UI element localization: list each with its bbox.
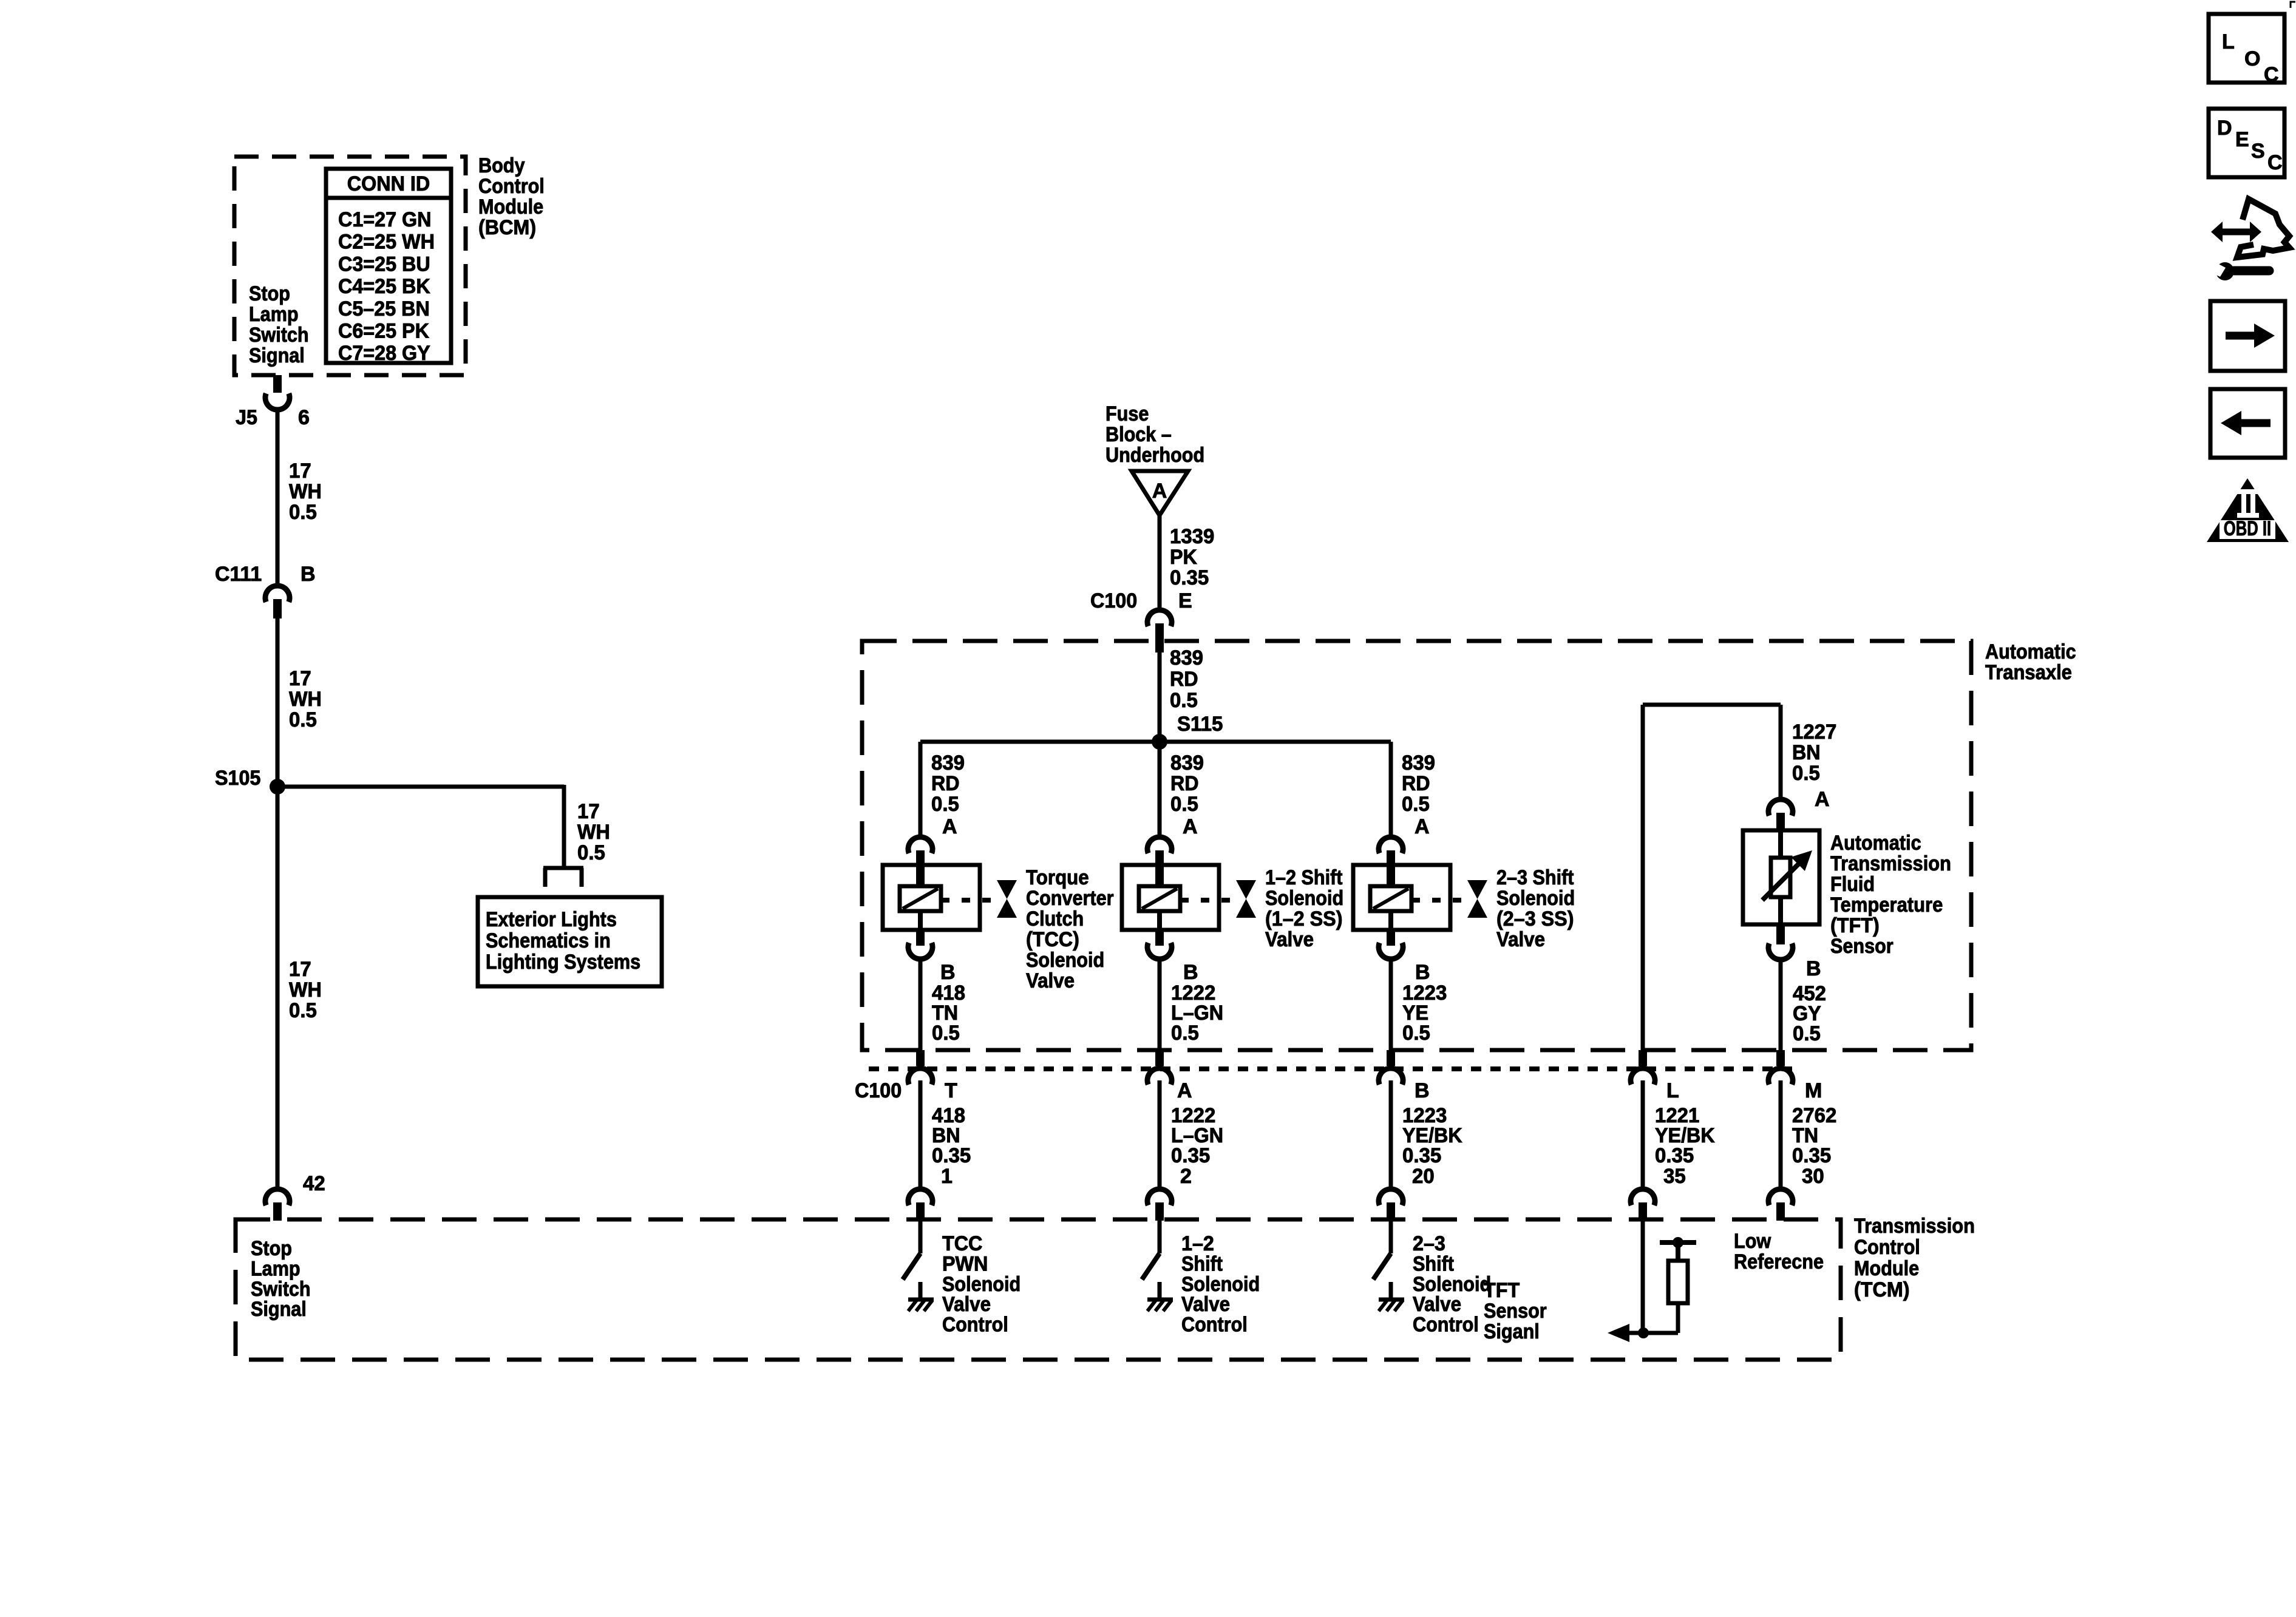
- svg-text:E: E: [2235, 128, 2249, 151]
- svg-text:Clutch: Clutch: [1026, 907, 1084, 931]
- svg-text:WH: WH: [577, 821, 610, 844]
- svg-text:C: C: [2267, 151, 2283, 174]
- svg-text:0.5: 0.5: [1170, 793, 1198, 816]
- svg-text:T: T: [945, 1079, 957, 1102]
- svg-text:17: 17: [289, 667, 311, 690]
- svg-text:1227: 1227: [1792, 720, 1836, 744]
- svg-text:C2=25 WH: C2=25 WH: [338, 231, 435, 254]
- svg-text:Valve: Valve: [1265, 928, 1314, 951]
- svg-text:17: 17: [577, 800, 600, 823]
- svg-text:Lighting Systems: Lighting Systems: [486, 951, 640, 974]
- svg-text:RD: RD: [1170, 668, 1198, 691]
- svg-text:Module: Module: [1854, 1257, 1919, 1280]
- svg-text:Valve: Valve: [942, 1293, 991, 1316]
- svg-text:Referecne: Referecne: [1734, 1250, 1824, 1273]
- svg-text:B: B: [940, 961, 956, 984]
- svg-text:Underhood: Underhood: [1106, 444, 1204, 467]
- svg-text:Fluid: Fluid: [1830, 873, 1875, 896]
- svg-text:C100: C100: [1090, 589, 1137, 612]
- svg-text:A: A: [1152, 480, 1167, 503]
- svg-text:Solenoid: Solenoid: [1181, 1273, 1260, 1296]
- svg-text:Converter: Converter: [1026, 887, 1114, 910]
- svg-text:O: O: [2244, 47, 2260, 70]
- svg-text:0.5: 0.5: [289, 999, 317, 1022]
- svg-text:42: 42: [303, 1172, 325, 1195]
- svg-text:0.5: 0.5: [1402, 793, 1430, 816]
- svg-text:17: 17: [289, 459, 311, 483]
- svg-text:839: 839: [1402, 751, 1435, 775]
- svg-text:Stop: Stop: [251, 1237, 292, 1260]
- svg-text:Transaxle: Transaxle: [1985, 661, 2072, 684]
- svg-text:A: A: [942, 815, 957, 838]
- svg-text:Body: Body: [478, 154, 525, 177]
- svg-text:L: L: [1666, 1079, 1679, 1102]
- svg-text:WH: WH: [289, 688, 322, 711]
- svg-text:0.35: 0.35: [1402, 1144, 1441, 1167]
- svg-text:Block –: Block –: [1106, 423, 1172, 446]
- svg-text:839: 839: [1170, 646, 1203, 670]
- svg-text:2: 2: [1180, 1165, 1192, 1188]
- svg-text:30: 30: [1802, 1165, 1824, 1188]
- svg-text:A: A: [1815, 788, 1830, 811]
- svg-text:0.5: 0.5: [1170, 689, 1198, 712]
- svg-text:Solenoid: Solenoid: [1026, 949, 1104, 972]
- svg-text:A: A: [1415, 815, 1430, 838]
- svg-text:Valve: Valve: [1181, 1293, 1230, 1316]
- svg-text:0.35: 0.35: [1171, 1144, 1210, 1167]
- svg-text:(TCC): (TCC): [1026, 928, 1079, 951]
- svg-text:B: B: [1183, 961, 1198, 984]
- svg-text:J5: J5: [236, 406, 257, 429]
- svg-text:Low: Low: [1734, 1230, 1771, 1253]
- svg-text:Signal: Signal: [251, 1298, 307, 1321]
- svg-text:TFT: TFT: [1484, 1279, 1520, 1302]
- svg-text:Torque: Torque: [1026, 866, 1089, 889]
- svg-text:B: B: [1415, 961, 1430, 984]
- svg-text:RD: RD: [1170, 772, 1199, 795]
- svg-text:PK: PK: [1170, 546, 1197, 569]
- svg-text:Module: Module: [478, 195, 543, 219]
- svg-text:PWN: PWN: [942, 1252, 988, 1275]
- svg-text:S105: S105: [215, 767, 260, 790]
- svg-text:Sensor: Sensor: [1830, 935, 1894, 958]
- svg-text:BN: BN: [1792, 741, 1821, 764]
- svg-text:A: A: [1177, 1079, 1192, 1102]
- svg-text:35: 35: [1663, 1165, 1686, 1188]
- svg-text:(TFT): (TFT): [1830, 914, 1880, 937]
- svg-text:Switch: Switch: [251, 1278, 311, 1301]
- svg-text:Control: Control: [1181, 1314, 1248, 1337]
- svg-text:Solenoid: Solenoid: [1496, 887, 1575, 910]
- svg-text:B: B: [1415, 1079, 1430, 1102]
- svg-text:Solenoid: Solenoid: [1413, 1273, 1491, 1296]
- svg-text:C4=25 BK: C4=25 BK: [338, 275, 430, 298]
- svg-text:Shift: Shift: [1413, 1252, 1454, 1275]
- svg-text:A: A: [1183, 815, 1198, 838]
- svg-text:RD: RD: [1402, 772, 1430, 795]
- svg-text:C7=28 GY: C7=28 GY: [338, 342, 430, 365]
- svg-text:(2–3 SS): (2–3 SS): [1496, 907, 1574, 931]
- svg-text:1–2: 1–2: [1181, 1232, 1214, 1255]
- svg-text:C5–25 BN: C5–25 BN: [338, 297, 430, 320]
- svg-text:C1=27 GN: C1=27 GN: [338, 208, 432, 231]
- svg-text:S115: S115: [1177, 713, 1223, 736]
- svg-text:C111: C111: [215, 563, 262, 586]
- svg-text:Shift: Shift: [1181, 1252, 1223, 1275]
- svg-text:Signal: Signal: [249, 344, 305, 367]
- svg-text:OBD II: OBD II: [2224, 517, 2271, 540]
- svg-text:0.5: 0.5: [289, 501, 317, 524]
- svg-text:WH: WH: [289, 978, 322, 1002]
- svg-text:M: M: [1805, 1079, 1822, 1102]
- svg-text:TCC: TCC: [942, 1232, 982, 1255]
- svg-text:Control: Control: [942, 1314, 1008, 1337]
- svg-text:Lamp: Lamp: [249, 303, 299, 326]
- svg-text:0.35: 0.35: [1170, 566, 1209, 589]
- svg-text:Exterior Lights: Exterior Lights: [486, 908, 617, 931]
- svg-text:(BCM): (BCM): [478, 216, 536, 239]
- svg-text:Schematics in: Schematics in: [486, 929, 611, 952]
- svg-text:1339: 1339: [1170, 525, 1214, 548]
- svg-text:0.35: 0.35: [1792, 1144, 1831, 1167]
- svg-text:0.5: 0.5: [577, 841, 605, 864]
- svg-text:Lamp: Lamp: [251, 1257, 301, 1280]
- svg-text:6: 6: [298, 406, 310, 429]
- svg-text:Solenoid: Solenoid: [1265, 887, 1343, 910]
- svg-text:Control: Control: [1854, 1236, 1920, 1259]
- svg-text:Valve: Valve: [1496, 928, 1545, 951]
- svg-text:839: 839: [931, 751, 965, 775]
- svg-text:RD: RD: [931, 772, 960, 795]
- svg-text:CONN ID: CONN ID: [347, 172, 430, 195]
- svg-text:0.5: 0.5: [931, 793, 959, 816]
- svg-text:S: S: [2251, 140, 2265, 163]
- svg-text:0.35: 0.35: [932, 1144, 971, 1167]
- svg-text:Automatic: Automatic: [1985, 640, 2076, 663]
- svg-text:0.5: 0.5: [932, 1022, 960, 1045]
- svg-text:Control: Control: [1413, 1314, 1479, 1337]
- svg-text:Valve: Valve: [1413, 1293, 1461, 1316]
- svg-text:0.35: 0.35: [1655, 1144, 1694, 1167]
- svg-text:Valve: Valve: [1026, 969, 1075, 992]
- svg-text:0.5: 0.5: [1402, 1022, 1430, 1045]
- svg-text:(1–2 SS): (1–2 SS): [1265, 907, 1343, 931]
- svg-text:B: B: [1806, 957, 1821, 980]
- svg-text:Transmission: Transmission: [1854, 1215, 1975, 1238]
- svg-text:0.5: 0.5: [1793, 1022, 1821, 1045]
- svg-text:E: E: [1178, 589, 1192, 612]
- svg-text:Siganl: Siganl: [1484, 1320, 1540, 1343]
- svg-text:Transmission: Transmission: [1830, 852, 1951, 875]
- svg-text:2–3: 2–3: [1413, 1232, 1445, 1255]
- svg-text:0.5: 0.5: [289, 708, 317, 731]
- svg-text:Sensor: Sensor: [1484, 1300, 1547, 1323]
- svg-text:1–2 Shift: 1–2 Shift: [1265, 866, 1343, 889]
- svg-text:B: B: [301, 563, 316, 586]
- svg-text:0.5: 0.5: [1171, 1022, 1199, 1045]
- svg-text:Stop: Stop: [249, 282, 290, 305]
- svg-text:C100: C100: [855, 1079, 902, 1102]
- svg-text:(TCM): (TCM): [1854, 1278, 1910, 1301]
- svg-text:WH: WH: [289, 480, 322, 503]
- svg-text:C3=25 BU: C3=25 BU: [338, 253, 430, 276]
- svg-text:C: C: [2264, 63, 2279, 86]
- svg-text:L: L: [2222, 30, 2235, 53]
- svg-text:1: 1: [941, 1165, 953, 1188]
- svg-text:Fuse: Fuse: [1106, 402, 1149, 425]
- svg-text:2–3 Shift: 2–3 Shift: [1496, 866, 1574, 889]
- svg-text:Solenoid: Solenoid: [942, 1273, 1021, 1296]
- svg-text:Automatic: Automatic: [1830, 832, 1921, 855]
- svg-text:17: 17: [289, 958, 311, 981]
- svg-text:C6=25 PK: C6=25 PK: [338, 320, 429, 343]
- svg-text:839: 839: [1170, 751, 1204, 775]
- svg-text:Control: Control: [478, 175, 545, 198]
- svg-text:Temperature: Temperature: [1830, 893, 1943, 917]
- svg-text:0.5: 0.5: [1792, 762, 1820, 785]
- svg-text:20: 20: [1412, 1165, 1435, 1188]
- svg-text:D: D: [2217, 117, 2232, 140]
- svg-text:Switch: Switch: [249, 324, 309, 347]
